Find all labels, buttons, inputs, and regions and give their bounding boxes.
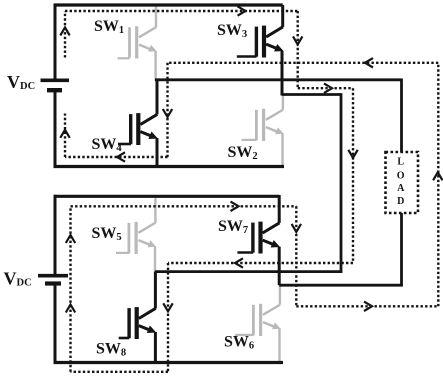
arrow left on series link to A2 path bbox=[235, 258, 243, 267]
dotted current path: series link leftward to node A2 bbox=[168, 262, 353, 264]
svg-text:O: O bbox=[397, 171, 405, 182]
arrow down on SW8 path bbox=[163, 303, 172, 311]
transistor SW7 (black IGBT, bridge2 right-top) bbox=[237, 195, 280, 285]
wire top rail bridge2 bbox=[54, 195, 280, 198]
transistor SW1 (gray IGBT, bridge1 left-top) bbox=[118, 5, 157, 81]
svg-text:D: D bbox=[397, 196, 404, 207]
arrow up on VDC1 path (lower) bbox=[60, 130, 69, 138]
arrow right on node B2 to load path bbox=[364, 302, 372, 311]
load box (dotted border) bbox=[386, 152, 419, 213]
wire left rail bridge1 upper bbox=[54, 4, 57, 79]
arrow right on node B1 path bbox=[324, 84, 332, 93]
wire left rail bridge2 upper bbox=[54, 195, 57, 276]
wire node B2 to load bbox=[279, 284, 403, 287]
dotted current path: series link down bbox=[352, 88, 354, 263]
transistor SW4 (black IGBT, bridge1 left-bottom) bbox=[118, 80, 158, 167]
dotted current path: down through SW4 bbox=[166, 63, 168, 157]
arrow down on SW7 path bbox=[292, 224, 301, 232]
transistor SW8 (black IGBT, bridge2 left-bottom) bbox=[119, 272, 157, 363]
dotted current path: down through SW7 bbox=[295, 206, 297, 306]
dotted current path: down through SW8 bbox=[167, 263, 169, 372]
dotted current path: bridge1 left side up through VDC1 bbox=[64, 114, 66, 158]
wire bottom rail bridge2 bbox=[54, 361, 284, 364]
transistor SW2 (gray IGBT, bridge1 right-bottom) bbox=[242, 95, 284, 167]
transistor SW6 (gray IGBT, bridge2 right-bottom) bbox=[235, 285, 280, 363]
wire top rail bridge1 bbox=[54, 3, 283, 6]
dotted current path: bridge2 top rail rightward bbox=[71, 205, 297, 207]
arrow right on bridge1 top rail path bbox=[238, 6, 246, 15]
dotted current path: return leftward above node B1 bbox=[168, 62, 439, 64]
arrow left on return path above B1 bbox=[365, 58, 373, 67]
dotted current path: bridge1 top rail bbox=[65, 10, 298, 12]
wire node A1 to load (bridge1 left midpoint output) bbox=[155, 78, 402, 81]
transistor SW3 (black IGBT, bridge1 right-top) bbox=[237, 5, 284, 96]
battery VDC2 positive plate bbox=[38, 274, 68, 278]
dotted current path: node B1 rightward bbox=[298, 87, 353, 89]
wire bottom rail bridge1 bbox=[54, 165, 285, 168]
wire node B1 (bridge1 right midpoint) bbox=[282, 93, 341, 96]
arrow down on series link path bbox=[348, 150, 357, 158]
arrow up on VDC1 path (upper) bbox=[60, 27, 69, 35]
battery VDC1 positive plate bbox=[41, 79, 70, 83]
arrow right on bridge2 top rail path bbox=[231, 202, 239, 211]
arrow down on SW4 path bbox=[163, 109, 172, 117]
dotted current path: up right of load bbox=[437, 63, 439, 306]
wire series link B1 down bbox=[340, 93, 343, 272]
wire left rail bridge1 lower bbox=[54, 90, 57, 166]
arrow up on VDC2 path (upper) bbox=[66, 235, 75, 243]
arrow left on bridge1 bottom rail path bbox=[117, 152, 125, 161]
dotted current path: bridge2 bottom rail leftward bbox=[71, 371, 169, 373]
wire left rail bridge2 lower bbox=[54, 284, 57, 363]
load label letters bbox=[397, 157, 405, 207]
arrow down on SW3 path bbox=[293, 36, 302, 44]
svg-text:A: A bbox=[397, 183, 405, 194]
wire series link to node A2 bbox=[155, 270, 342, 273]
dotted current path: bridge1 bottom rail leftward bbox=[65, 156, 168, 158]
arrow up on VDC2 path (lower) bbox=[66, 305, 75, 313]
dotted current path: up through VDC2 bbox=[69, 206, 71, 371]
wire load top lead bbox=[400, 79, 403, 153]
battery VDC2 negative plate bbox=[45, 281, 61, 285]
dotted current path: node B2 rightward to load bbox=[296, 305, 438, 307]
wire load bottom lead bbox=[400, 213, 403, 285]
battery VDC1 negative plate bbox=[47, 88, 62, 92]
dotted current path: down through SW3 bbox=[297, 11, 299, 88]
arrow up on load return path bbox=[433, 172, 442, 180]
svg-text:L: L bbox=[397, 157, 404, 168]
transistor SW5 (gray IGBT, bridge2 left-top) bbox=[116, 196, 156, 272]
